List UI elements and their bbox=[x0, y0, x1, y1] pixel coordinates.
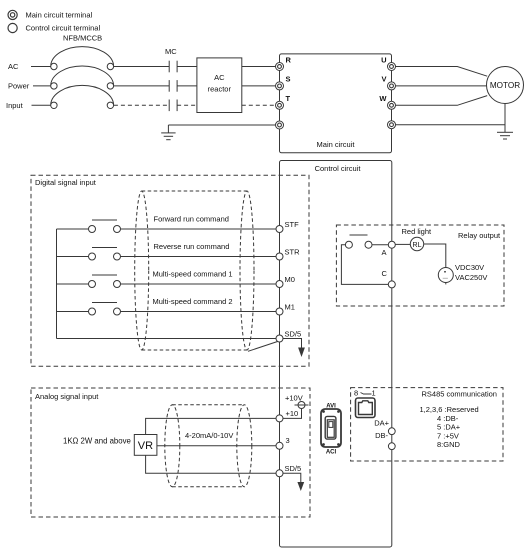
wire: breaker to MC phase 2 bbox=[114, 85, 169, 87]
contactor MC contact 1 bbox=[169, 61, 177, 73]
label: VDC30V VAC250V bbox=[455, 263, 487, 282]
wire: relay switch to terminal A bbox=[372, 244, 389, 246]
relay switch contact bbox=[345, 235, 372, 248]
wire: earth terminal to motor ground bbox=[396, 124, 506, 126]
svg-text:Red light: Red light bbox=[402, 227, 433, 236]
svg-text:R: R bbox=[286, 55, 292, 64]
switch M1 (multi-speed 2) bbox=[57, 303, 121, 316]
wire: motor to ground bbox=[504, 104, 506, 133]
terminal DA+ bbox=[374, 419, 395, 435]
svg-text:1: 1 bbox=[372, 389, 376, 398]
label: RS485 pin assignments bbox=[420, 405, 479, 449]
ground (motor side) bbox=[497, 132, 513, 139]
common arrow SD/5 (digital) bbox=[283, 339, 305, 358]
svg-text:AC: AC bbox=[8, 62, 19, 71]
terminal SD/5 (digital common) bbox=[276, 330, 301, 343]
+10V supply symbol bbox=[285, 394, 309, 409]
svg-text:Forward run command: Forward run command bbox=[154, 215, 229, 224]
wire: MC to reactor phase 3 (dashed) bbox=[177, 104, 197, 106]
terminal SD/5 (analog common) bbox=[276, 464, 301, 477]
svg-text:MC: MC bbox=[165, 47, 177, 56]
svg-text:4 :DB-: 4 :DB- bbox=[437, 414, 459, 423]
wire: lamp RL to AC source bbox=[424, 244, 446, 268]
terminal R bbox=[276, 55, 292, 70]
switch STF (forward run) bbox=[57, 220, 121, 233]
wire: VR top to +10 terminal bbox=[146, 418, 277, 434]
svg-text:VAC250V: VAC250V bbox=[455, 273, 487, 282]
potentiometer VR bbox=[134, 435, 157, 456]
terminal A bbox=[382, 241, 396, 257]
svg-text:Digital signal input: Digital signal input bbox=[35, 178, 97, 187]
shielded cable (analog input) bbox=[165, 405, 252, 487]
wire: reactor to terminal S bbox=[242, 85, 276, 87]
selector switch AVI/ACI bbox=[321, 404, 341, 456]
svg-text:RL: RL bbox=[413, 242, 422, 249]
svg-text:T: T bbox=[286, 94, 291, 103]
RJ45 connector bbox=[356, 398, 376, 418]
motor M bbox=[487, 67, 524, 104]
svg-text:M0: M0 bbox=[285, 275, 295, 284]
wire: W to motor bbox=[396, 96, 488, 106]
terminal U bbox=[381, 55, 395, 70]
terminal earth (output side) bbox=[388, 121, 396, 129]
terminal 3 bbox=[276, 436, 290, 449]
lamp RL (red light) bbox=[402, 227, 433, 251]
svg-text:Main circuit: Main circuit bbox=[317, 140, 356, 149]
relay output section box bbox=[336, 225, 504, 306]
control circuit box bbox=[280, 161, 392, 548]
svg-text:Input: Input bbox=[6, 101, 24, 110]
svg-text:8: 8 bbox=[354, 389, 358, 398]
svg-text:1KΩ 2W and above: 1KΩ 2W and above bbox=[63, 437, 131, 446]
digital signal input section box bbox=[31, 175, 309, 366]
svg-text:Multi-speed command 1: Multi-speed command 1 bbox=[153, 270, 233, 279]
svg-text:DA+: DA+ bbox=[374, 419, 389, 428]
svg-text:8:GND: 8:GND bbox=[437, 440, 461, 449]
analog signal input section box bbox=[31, 388, 310, 517]
AC source (relay load supply) bbox=[438, 268, 453, 283]
terminal T bbox=[276, 94, 291, 109]
svg-text:reactor: reactor bbox=[208, 85, 232, 94]
svg-text:VR: VR bbox=[138, 440, 153, 452]
svg-text:M1: M1 bbox=[285, 303, 295, 312]
terminal W bbox=[379, 94, 395, 109]
common arrow SD/5 (analog) bbox=[283, 473, 305, 491]
contactor MC contact 2 bbox=[169, 80, 177, 92]
terminal DB- bbox=[375, 431, 395, 450]
svg-text:SD/5: SD/5 bbox=[285, 330, 302, 339]
svg-text:DB-: DB- bbox=[375, 431, 388, 440]
wire: V to motor bbox=[396, 85, 487, 87]
svg-text:ACI: ACI bbox=[326, 450, 337, 456]
terminal C bbox=[382, 269, 396, 288]
wire: AC phase lead bbox=[31, 66, 51, 68]
svg-text:Main circuit terminal: Main circuit terminal bbox=[26, 11, 93, 20]
wire: STR switch to terminal bbox=[121, 256, 277, 258]
svg-text:3: 3 bbox=[286, 436, 290, 445]
switch STR (reverse run) bbox=[57, 248, 121, 261]
wire: SD/5 common bottom bbox=[57, 338, 277, 340]
terminal V bbox=[381, 75, 395, 90]
AC reactor bbox=[197, 58, 242, 113]
svg-text:Power: Power bbox=[8, 82, 30, 91]
terminal +10 bbox=[276, 409, 298, 422]
svg-text:7 :+5V: 7 :+5V bbox=[437, 431, 459, 440]
svg-text:Control circuit terminal: Control circuit terminal bbox=[26, 23, 101, 32]
svg-text:VDC30V: VDC30V bbox=[455, 263, 484, 272]
legend control circuit terminal symbol bbox=[8, 23, 17, 32]
label: AC Power Input bbox=[6, 62, 30, 110]
wire: VR wiper to terminal 3 bbox=[157, 445, 276, 447]
svg-text:Reverse run command: Reverse run command bbox=[154, 242, 230, 251]
wire: reactor to terminal R bbox=[242, 66, 276, 68]
svg-text:1,2,3,6 :Reserved: 1,2,3,6 :Reserved bbox=[420, 405, 479, 414]
wire: reactor to terminal T (dashed) bbox=[242, 104, 276, 106]
svg-text:Control circuit: Control circuit bbox=[315, 164, 362, 173]
wire: terminal A to lamp RL bbox=[395, 243, 410, 245]
shielded cable (digital input) bbox=[135, 191, 254, 350]
terminal earth (input side) bbox=[276, 121, 284, 129]
wire: MC to reactor phase 1 bbox=[177, 66, 197, 68]
ground (input side) bbox=[161, 125, 175, 140]
svg-text:U: U bbox=[381, 55, 386, 64]
inverter main circuit box bbox=[280, 54, 392, 153]
wire: M1 switch to terminal bbox=[121, 311, 277, 313]
wire: +10 terminal to +10V supply bbox=[283, 409, 302, 419]
svg-text:RS485 communication: RS485 communication bbox=[422, 390, 497, 399]
wire: STF switch to terminal bbox=[121, 228, 277, 230]
wire: Input phase lead bbox=[32, 104, 52, 106]
svg-text:STF: STF bbox=[285, 220, 300, 229]
wire: STF common side vertical bbox=[56, 229, 58, 339]
svg-text:SD/5: SD/5 bbox=[285, 464, 302, 473]
svg-text:V: V bbox=[381, 75, 386, 84]
terminal STR bbox=[276, 248, 300, 261]
wire: cable shield drain to SD/5 bbox=[248, 342, 278, 352]
contactor MC contact 3 bbox=[169, 100, 177, 112]
wire: breaker to MC phase 3 (dashed) bbox=[114, 104, 169, 106]
terminal S bbox=[276, 75, 291, 90]
wire: breaker to MC phase 1 bbox=[114, 66, 169, 68]
terminal M0 bbox=[276, 275, 295, 288]
svg-text:NFB/MCCB: NFB/MCCB bbox=[63, 34, 102, 43]
svg-text:Multi-speed command 2: Multi-speed command 2 bbox=[153, 297, 233, 306]
label: connector pins 8 to 1 bbox=[354, 389, 376, 398]
RS485 communication section box bbox=[351, 388, 503, 461]
circuit breaker NFB/MCCB pole 3 bbox=[51, 85, 114, 108]
wire: Power phase lead bbox=[33, 85, 51, 87]
svg-text:C: C bbox=[382, 269, 388, 278]
svg-text:Relay output: Relay output bbox=[458, 231, 501, 240]
svg-text:5 :DA+: 5 :DA+ bbox=[437, 423, 461, 432]
circuit breaker NFB/MCCB pole 1 bbox=[51, 47, 114, 70]
switch M0 (multi-speed 1) bbox=[57, 275, 121, 288]
terminal M1 bbox=[276, 303, 295, 316]
wire: U to motor bbox=[396, 67, 488, 77]
svg-text:+10: +10 bbox=[286, 409, 299, 418]
wire: M0 switch to terminal bbox=[121, 283, 277, 285]
svg-text:AC: AC bbox=[214, 73, 225, 82]
wire: MC to reactor phase 2 bbox=[177, 85, 197, 87]
svg-text:W: W bbox=[379, 94, 387, 103]
circuit breaker NFB/MCCB pole 2 bbox=[51, 66, 114, 89]
svg-text:4-20mA/0-10V: 4-20mA/0-10V bbox=[185, 431, 233, 440]
svg-text:Analog signal input: Analog signal input bbox=[35, 392, 99, 401]
wire: AC source to terminal C bbox=[445, 283, 447, 285]
legend main circuit terminal symbol bbox=[8, 10, 17, 19]
svg-text:STR: STR bbox=[285, 248, 301, 257]
svg-text:A: A bbox=[382, 248, 387, 257]
svg-text:S: S bbox=[286, 75, 291, 84]
svg-text:+10V: +10V bbox=[285, 394, 303, 403]
wire: VR bottom to SD/5 bbox=[146, 455, 277, 473]
terminal STF bbox=[276, 220, 299, 233]
wire: input earth to terminal bbox=[168, 124, 276, 126]
svg-text:MOTOR: MOTOR bbox=[490, 81, 520, 90]
wire: relay switch left to terminal C bbox=[341, 245, 388, 285]
